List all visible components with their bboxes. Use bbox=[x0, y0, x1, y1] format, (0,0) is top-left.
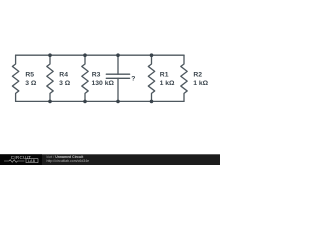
svg-text:http://circuitlab.com/c6d34e: http://circuitlab.com/c6d34e bbox=[47, 159, 90, 163]
node R1 bottom bbox=[150, 100, 154, 104]
resistor R3 bbox=[82, 55, 88, 101]
svg-text:130 kΩ: 130 kΩ bbox=[92, 80, 115, 87]
resistor R4 bbox=[47, 55, 53, 101]
svg-text:R3: R3 bbox=[92, 72, 101, 79]
node C top bbox=[116, 53, 120, 57]
svg-text:1 kΩ: 1 kΩ bbox=[160, 80, 175, 87]
svg-text:1 kΩ: 1 kΩ bbox=[193, 80, 208, 87]
wire bottom rail bbox=[16, 100, 184, 102]
node R1 top bbox=[150, 53, 154, 57]
node C bottom bbox=[116, 100, 120, 104]
resistor R5 bbox=[12, 55, 18, 101]
CircuitLab logo box bbox=[0, 154, 42, 165]
svg-text:R4: R4 bbox=[59, 72, 68, 79]
resistor R2 bbox=[181, 55, 187, 101]
node R3 top bbox=[83, 53, 87, 57]
svg-text:3 Ω: 3 Ω bbox=[59, 80, 71, 87]
logo zigzag wire bbox=[4, 160, 24, 163]
svg-text:LAB: LAB bbox=[28, 159, 36, 163]
svg-text:R2: R2 bbox=[193, 72, 202, 79]
watermark bar bbox=[0, 154, 220, 165]
svg-text:?: ? bbox=[131, 76, 135, 83]
node R3 bottom bbox=[83, 100, 87, 104]
capacitor C? bbox=[117, 55, 119, 74]
svg-text:3 Ω: 3 Ω bbox=[25, 80, 37, 87]
logo LAB box bbox=[26, 159, 38, 163]
wire top rail bbox=[16, 54, 184, 56]
node R4 top bbox=[48, 53, 52, 57]
svg-text:R5: R5 bbox=[25, 72, 34, 79]
svg-text:R1: R1 bbox=[160, 72, 169, 79]
node R4 bottom bbox=[48, 100, 52, 104]
resistor R1 bbox=[148, 55, 154, 101]
